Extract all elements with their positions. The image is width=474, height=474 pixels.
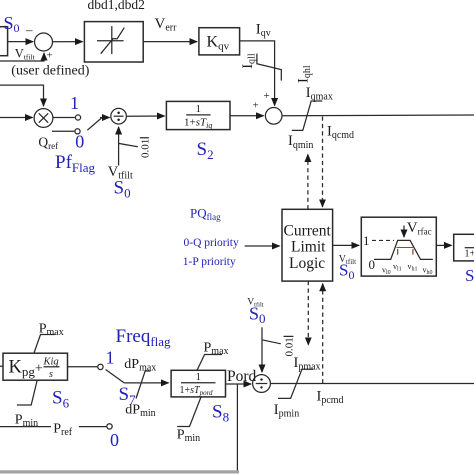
svg-text:Kig: Kig (43, 357, 59, 368)
svg-text:Logic: Logic (289, 255, 325, 272)
svg-text:Current: Current (284, 223, 332, 240)
svg-text:Limit: Limit (291, 239, 326, 256)
svg-text:+: + (264, 90, 270, 102)
svg-text:+: + (253, 100, 259, 112)
svg-text:dbd1,dbd2: dbd1,dbd2 (88, 0, 145, 12)
svg-text:0: 0 (369, 257, 376, 272)
svg-text:0: 0 (110, 430, 119, 450)
svg-text:1: 1 (196, 371, 202, 383)
svg-text:S: S (465, 266, 474, 285)
svg-text:(user defined): (user defined) (11, 64, 89, 79)
svg-text:1+: 1+ (465, 249, 474, 260)
svg-text:1: 1 (106, 348, 115, 368)
svg-text:1: 1 (70, 93, 79, 113)
svg-text:0.01: 0.01 (140, 139, 152, 158)
svg-text:0: 0 (75, 132, 84, 152)
svg-text:1-P priority: 1-P priority (183, 256, 236, 268)
svg-text:0.01: 0.01 (284, 337, 296, 356)
svg-text:1: 1 (196, 103, 202, 115)
svg-text:s: s (49, 369, 53, 380)
svg-text:1: 1 (363, 233, 370, 248)
svg-text:–: – (25, 22, 33, 37)
svg-text:0-Q priority: 0-Q priority (184, 237, 240, 249)
svg-text:+: + (47, 50, 53, 62)
